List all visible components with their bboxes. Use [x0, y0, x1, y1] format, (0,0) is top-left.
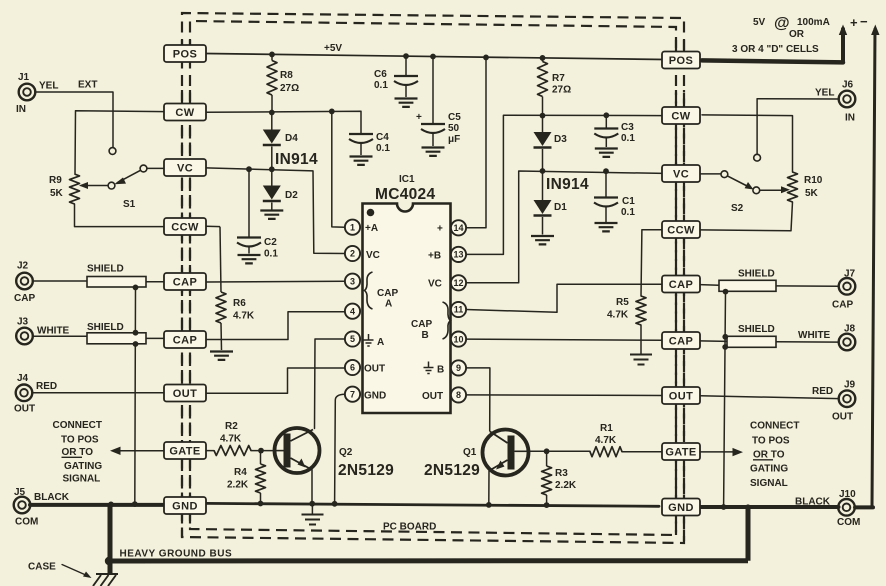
svg-text:TO POS: TO POS	[752, 436, 790, 447]
wire Q1 emitter to bus	[488, 471, 490, 505]
terminal box VC left	[164, 159, 206, 176]
wire R9 bottom to CCW box	[75, 204, 165, 227]
svg-text:R3: R3	[555, 468, 568, 479]
svg-text:8: 8	[456, 390, 461, 400]
wire right shield ground tap vertical	[724, 292, 726, 507]
svg-text:6: 6	[350, 363, 355, 373]
terminal box GATE left	[164, 442, 206, 459]
svg-text:S1: S1	[123, 199, 136, 210]
wire pin 5 to Q2 collector	[315, 339, 345, 429]
wire CASE pointer	[62, 565, 88, 577]
ground below C5	[422, 148, 445, 156]
wire pin 13 to CW row	[466, 115, 662, 254]
svg-text:J7: J7	[844, 269, 856, 280]
svg-text:S2: S2	[731, 203, 744, 214]
shield box J2	[87, 277, 146, 288]
switch S1 arm	[118, 170, 141, 182]
jack J6	[839, 91, 856, 108]
svg-text:10: 10	[453, 334, 463, 344]
svg-text:SIGNAL: SIGNAL	[63, 474, 101, 485]
wire pin 8 to OUT box	[466, 394, 662, 397]
svg-text:1: 1	[350, 222, 355, 232]
svg-text:J5: J5	[14, 487, 26, 498]
wire Q2 emitter to bus	[311, 470, 313, 504]
wire CAP box to shield J7	[700, 284, 719, 287]
svg-text:CAP: CAP	[669, 279, 693, 291]
node S1 throw contact	[140, 165, 147, 172]
jack J10	[838, 499, 855, 516]
svg-text:R8: R8	[280, 70, 293, 81]
svg-text:+5V: +5V	[324, 43, 342, 54]
svg-text:R9: R9	[49, 175, 62, 186]
svg-text:0.1: 0.1	[621, 133, 635, 144]
svg-text:POS: POS	[669, 55, 693, 67]
svg-text:27Ω: 27Ω	[280, 83, 299, 94]
terminal box VC right	[662, 165, 700, 182]
wire GND box to J10 (thick)	[699, 505, 839, 509]
svg-text:RED: RED	[812, 386, 833, 397]
pin 1 marker dot	[367, 209, 375, 217]
svg-text:OUT: OUT	[14, 404, 35, 415]
svg-text:R4: R4	[234, 467, 247, 478]
wire R2 to Q2 base	[251, 450, 275, 452]
svg-text:OR: OR	[789, 29, 805, 40]
svg-text:CAP: CAP	[14, 293, 35, 304]
node S2 throw contact	[721, 171, 728, 178]
capacitor C2	[248, 169, 250, 236]
terminal box OUT left	[164, 385, 206, 402]
wire GATE box to R2	[206, 450, 214, 452]
terminal box GATE right	[662, 443, 700, 460]
svg-text:IN: IN	[845, 113, 855, 124]
pin 4	[345, 304, 360, 319]
svg-text:0.1: 0.1	[621, 207, 635, 218]
wire J6 to S2	[757, 99, 838, 155]
svg-text:+A: +A	[365, 223, 378, 234]
wire J4 to OUT box	[32, 392, 164, 394]
capacitor C3	[605, 115, 607, 127]
svg-text:CONNECT: CONNECT	[750, 421, 799, 432]
svg-text:IN914: IN914	[546, 176, 589, 193]
wire R1 to GATE box	[622, 451, 662, 453]
svg-text:13: 13	[453, 250, 463, 260]
svg-text:IN: IN	[16, 104, 26, 115]
IC internal brace CAP B	[443, 302, 451, 339]
wire plus vertical	[841, 29, 845, 62]
svg-text:R2: R2	[225, 421, 238, 432]
IC internal label gndA pin5	[364, 334, 374, 346]
svg-text:J1: J1	[18, 72, 30, 83]
svg-text:B: B	[422, 330, 429, 341]
svg-text:CCW: CCW	[667, 225, 695, 237]
pin 2	[345, 246, 360, 261]
resistor R3	[546, 451, 548, 466]
terminal box GND right	[662, 499, 700, 516]
PC board dashed outline inner	[190, 21, 676, 535]
svg-text:CAP: CAP	[173, 277, 197, 289]
svg-text:C6: C6	[374, 69, 387, 80]
diode D3	[542, 116, 544, 132]
wire OUT box to J9	[700, 396, 839, 399]
arrowhead R10 wiper	[781, 186, 790, 193]
terminal box CCW right	[662, 221, 700, 238]
shield box J8	[727, 336, 776, 347]
svg-text:7: 7	[350, 389, 355, 399]
wire minus vertical	[872, 29, 875, 507]
wire shield to CAP box j3	[146, 337, 164, 339]
wire J2 to shield	[33, 280, 88, 282]
wire S1 to VC box	[146, 167, 164, 169]
wire shield to CAP box	[146, 281, 164, 283]
svg-text:CAP: CAP	[377, 288, 398, 299]
svg-text:PC BOARD: PC BOARD	[383, 522, 436, 533]
svg-text:YEL: YEL	[815, 88, 834, 99]
svg-text:+: +	[437, 224, 443, 235]
ground below D2	[260, 211, 283, 219]
wire OUT box to pin 6	[206, 368, 345, 393]
wire pin 14 to +5V rail	[466, 57, 486, 227]
svg-text:+: +	[850, 15, 858, 30]
svg-text:2N5129: 2N5129	[424, 462, 480, 479]
svg-text:BLACK: BLACK	[795, 497, 831, 508]
svg-text:+B: +B	[428, 251, 441, 262]
svg-text:GATING: GATING	[750, 464, 788, 475]
svg-text:A: A	[377, 337, 384, 348]
pin 13	[451, 247, 466, 262]
terminal box POS left	[164, 45, 206, 62]
svg-text:IC1: IC1	[399, 174, 415, 185]
chassis ground CASE	[93, 574, 118, 586]
svg-text:−: −	[860, 14, 868, 29]
svg-text:J3: J3	[17, 317, 29, 328]
wire shield to J8	[776, 341, 839, 343]
svg-text:J10: J10	[839, 489, 856, 500]
resistor R4	[260, 451, 262, 464]
pin 14	[451, 220, 466, 235]
IC internal label gndB pin9	[424, 362, 434, 374]
wire POS box to plus arrow (thick)	[702, 60, 843, 62]
terminal box OUT right	[662, 387, 700, 404]
svg-text:VC: VC	[366, 250, 380, 261]
svg-text:OR TO: OR TO	[62, 447, 94, 458]
jack J7	[839, 278, 856, 295]
svg-text:3: 3	[350, 276, 355, 286]
IC internal brace CAP A	[365, 272, 373, 309]
wire CW box to R10	[702, 115, 793, 172]
shield box J3	[87, 333, 146, 344]
terminal box GND left	[164, 497, 206, 514]
svg-text:EXT: EXT	[78, 80, 97, 91]
svg-text:CASE: CASE	[28, 562, 56, 573]
diode D1	[542, 171, 544, 200]
svg-text:VC: VC	[673, 169, 689, 181]
svg-text:GND: GND	[668, 502, 694, 514]
heavy ground bus	[107, 504, 748, 574]
wire CCW box to R6	[206, 225, 220, 227]
svg-text:D2: D2	[285, 190, 298, 201]
ground below R5	[630, 355, 652, 365]
svg-text:C2: C2	[264, 237, 277, 248]
svg-text:C1: C1	[622, 196, 635, 207]
wire J10 to minus rail	[855, 505, 873, 509]
ground below Q2	[311, 506, 313, 514]
pin 3	[345, 274, 360, 289]
svg-text:4.7K: 4.7K	[220, 434, 242, 445]
svg-text:4.7K: 4.7K	[607, 310, 629, 321]
jack J1	[19, 84, 36, 101]
switch S2 arm	[727, 176, 750, 188]
ground below C2	[238, 255, 261, 263]
svg-text:CONNECT: CONNECT	[53, 420, 102, 431]
PC board dashed right verticals	[676, 40, 684, 543]
terminal box CW left	[164, 104, 206, 121]
svg-text:GATING: GATING	[64, 461, 102, 472]
svg-text:SIGNAL: SIGNAL	[750, 478, 788, 489]
svg-text:R5: R5	[616, 297, 629, 308]
wire CW row to pin1 branch and C4	[206, 111, 361, 133]
svg-text:2.2K: 2.2K	[555, 480, 577, 491]
svg-text:J8: J8	[844, 324, 856, 335]
wire J5 to GND box (thick)	[30, 503, 164, 507]
svg-text:J2: J2	[17, 261, 29, 272]
svg-text:J9: J9	[844, 380, 856, 391]
svg-text:OUT: OUT	[173, 388, 197, 400]
svg-text:GND: GND	[172, 501, 198, 513]
terminal box CAP left	[164, 331, 206, 348]
capacitor C6	[405, 56, 407, 75]
arrowhead R9 wiper	[79, 182, 88, 189]
wire CW box to R9 top	[75, 111, 164, 174]
svg-text:C5: C5	[448, 112, 461, 123]
svg-text:VC: VC	[177, 163, 193, 175]
wire R10 bottom to CCW box	[701, 202, 793, 231]
resistor R7	[542, 58, 544, 62]
terminal box CAP right	[662, 332, 700, 349]
wire VC box to S2	[699, 173, 721, 175]
ground below D1	[531, 236, 554, 244]
pin 7	[345, 387, 360, 402]
svg-text:+: +	[416, 112, 422, 123]
ground below R6	[210, 352, 233, 360]
svg-text:OUT: OUT	[832, 412, 853, 423]
wire GATE box to gating arrow right	[698, 451, 738, 453]
wire CAP row to pin 3	[206, 280, 345, 283]
resistor R1	[590, 447, 622, 457]
svg-text:YEL: YEL	[39, 81, 58, 92]
ground below C4	[350, 157, 373, 165]
svg-text:C3: C3	[621, 122, 634, 133]
svg-text:MC4024: MC4024	[375, 186, 435, 203]
capacitor C4	[349, 133, 373, 135]
pin 9	[451, 360, 466, 375]
terminal box CAP right	[662, 276, 700, 293]
svg-text:3 OR 4 "D" CELLS: 3 OR 4 "D" CELLS	[732, 44, 819, 55]
svg-text:COM: COM	[15, 517, 38, 528]
svg-text:CW: CW	[671, 111, 690, 123]
svg-text:A: A	[385, 299, 392, 310]
svg-text:4.7K: 4.7K	[595, 435, 617, 446]
node S1 wiper contact	[108, 182, 115, 189]
svg-text:12: 12	[453, 278, 463, 288]
transistor Q2	[275, 428, 320, 473]
wire pin 7 to ground bus	[335, 394, 345, 503]
pin 11	[451, 302, 466, 317]
svg-text:OR TO: OR TO	[753, 450, 785, 461]
svg-text:R10: R10	[804, 175, 823, 186]
svg-text:5K: 5K	[50, 188, 64, 199]
svg-text:0.1: 0.1	[264, 249, 278, 260]
wire pin 12 to VC row	[466, 171, 663, 283]
arrowhead plus up	[839, 25, 847, 36]
svg-text:IN914: IN914	[275, 151, 318, 168]
resistor R5	[636, 296, 646, 325]
diode D4	[271, 113, 273, 130]
wire Q1 base to R1	[515, 450, 590, 452]
svg-text:@: @	[774, 15, 790, 32]
svg-text:CAP: CAP	[173, 335, 197, 347]
svg-text:B: B	[437, 365, 444, 376]
pin 10	[451, 332, 466, 347]
terminal box CAP left	[164, 273, 206, 290]
svg-text:POS: POS	[173, 49, 197, 61]
svg-text:CAP: CAP	[832, 300, 853, 311]
arrowhead S1 arm	[114, 178, 126, 185]
svg-text:R7: R7	[552, 73, 565, 84]
svg-text:11: 11	[454, 305, 464, 315]
wire VC row to pin 2	[206, 168, 345, 254]
potentiometer R9	[70, 174, 80, 204]
ground below C3	[595, 149, 618, 157]
jack J2	[16, 273, 33, 290]
terminal box CW right	[662, 107, 700, 124]
op-amp IC1 MC4024 body	[363, 204, 451, 414]
svg-text:GATE: GATE	[169, 446, 200, 458]
jack J4	[16, 385, 33, 402]
svg-text:WHITE: WHITE	[798, 330, 831, 341]
svg-text:μF: μF	[448, 134, 460, 145]
wire pin 1	[332, 111, 345, 227]
node S2 top contact	[754, 154, 761, 161]
svg-text:50: 50	[448, 123, 460, 134]
svg-text:C4: C4	[376, 132, 389, 143]
arrowhead gating left	[110, 447, 121, 455]
wire CCW box to R5	[641, 230, 662, 296]
svg-text:Q2: Q2	[339, 447, 353, 458]
pin 6	[345, 360, 360, 375]
pin 5	[345, 331, 360, 346]
jack J3	[16, 328, 33, 345]
pin 8	[451, 387, 466, 402]
terminal box CCW left	[164, 218, 206, 235]
capacitor C5 electrolytic	[432, 57, 434, 124]
jack J8	[839, 334, 856, 351]
ground below C1	[595, 223, 618, 231]
svg-text:CAP: CAP	[411, 319, 432, 330]
wire shield to J7	[776, 285, 839, 287]
svg-text:4.7K: 4.7K	[233, 311, 255, 322]
svg-text:5V: 5V	[753, 17, 766, 28]
wire R5 bottom to ground	[640, 325, 642, 354]
svg-text:CCW: CCW	[171, 222, 199, 234]
wire R10 wiper from S2	[759, 189, 785, 191]
terminal box POS right	[662, 52, 700, 69]
svg-text:J6: J6	[842, 80, 854, 91]
jack J9	[839, 390, 856, 407]
resistor R8	[271, 54, 273, 112]
svg-text:COM: COM	[837, 517, 860, 528]
node S1 EXT contact	[109, 148, 116, 155]
svg-text:R1: R1	[600, 423, 613, 434]
svg-text:2N5129: 2N5129	[338, 462, 394, 479]
diode D2	[271, 169, 273, 185]
svg-text:D4: D4	[285, 133, 298, 144]
svg-text:SHIELD: SHIELD	[87, 264, 124, 275]
capacitor C1	[605, 171, 607, 197]
svg-text:SHIELD: SHIELD	[738, 269, 775, 280]
svg-text:OUT: OUT	[364, 364, 385, 375]
svg-text:5: 5	[350, 334, 355, 344]
svg-text:5K: 5K	[805, 188, 819, 199]
potentiometer R10	[788, 172, 798, 202]
resistor R2	[214, 446, 251, 456]
wire R9 wiper to S1 common	[81, 185, 108, 187]
transistor Q1	[483, 430, 529, 476]
svg-text:J4: J4	[17, 373, 29, 384]
arrowhead gating right	[733, 448, 744, 456]
svg-text:RED: RED	[36, 381, 57, 392]
resistor R6	[220, 227, 221, 292]
svg-text:CAP: CAP	[669, 336, 693, 348]
wire pin 9 to Q1 collector	[466, 368, 490, 431]
svg-text:WHITE: WHITE	[37, 326, 70, 337]
wire CAP box to pin 4	[206, 312, 345, 340]
svg-text:4: 4	[350, 306, 355, 316]
svg-text:2: 2	[350, 249, 355, 259]
svg-text:9: 9	[456, 363, 461, 373]
wire pin 11 to CAP row	[466, 284, 663, 312]
svg-text:HEAVY GROUND BUS: HEAVY GROUND BUS	[120, 549, 233, 560]
svg-text:SHIELD: SHIELD	[738, 324, 775, 335]
svg-text:OUT: OUT	[422, 391, 443, 402]
svg-text:100mA: 100mA	[797, 17, 830, 28]
arrowhead S2 arm	[745, 182, 754, 190]
pin 1	[345, 220, 360, 235]
svg-text:D1: D1	[554, 202, 567, 213]
wire shield ground tap vertical	[134, 287, 137, 504]
svg-text:27Ω: 27Ω	[552, 85, 571, 96]
svg-text:OUT: OUT	[669, 391, 693, 403]
svg-text:VC: VC	[428, 279, 442, 290]
svg-text:CW: CW	[175, 107, 194, 119]
shield box J7	[719, 280, 776, 291]
wire pin 10 to CAP row	[466, 339, 662, 340]
svg-text:D3: D3	[554, 134, 567, 145]
svg-text:SHIELD: SHIELD	[87, 322, 124, 333]
wire ground bus middle	[206, 503, 659, 506]
pin 12	[451, 275, 466, 290]
wire CAP box to shield J8	[700, 340, 727, 343]
ground below C6	[395, 99, 418, 107]
svg-text:R6: R6	[233, 298, 246, 309]
svg-text:TO POS: TO POS	[61, 435, 99, 446]
wire J3 to shield	[33, 335, 88, 337]
svg-text:0.1: 0.1	[374, 80, 388, 91]
arrowhead minus up	[871, 25, 879, 36]
wire +5V rail	[206, 54, 664, 60]
wire gating arrow to GATE box	[114, 450, 164, 452]
svg-text:14: 14	[453, 223, 463, 233]
svg-text:GND: GND	[364, 391, 386, 402]
